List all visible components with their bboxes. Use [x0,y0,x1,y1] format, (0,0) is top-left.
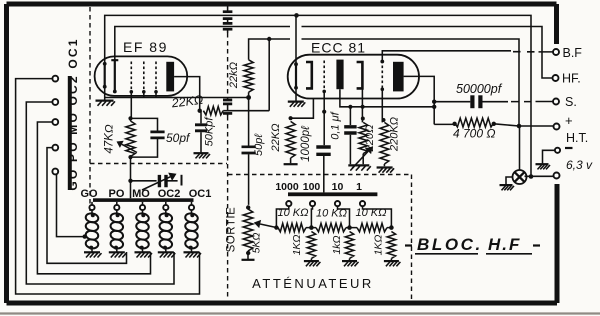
node HT/R2 riser [267,37,271,41]
svg-text:+: + [565,113,573,128]
node coil L1 tap [83,234,87,238]
resistor R9 10K [316,223,346,231]
node HT junction [517,124,522,129]
ECC81 anode 1 [336,60,343,90]
R4 bottom terminal bar [290,158,292,163]
svg-text:47KΩ: 47KΩ [104,124,116,153]
wire R1 chain down to switch bar [130,118,132,198]
svg-text:SORTIE: SORTIE [226,207,238,253]
ground 1K #1 [304,260,319,262]
attenuator tap terminal 1 [286,201,291,206]
resistor R5 220 ohm cathode [361,88,364,164]
node R1 bottom [128,155,132,159]
wiper arrow to P1 [260,224,277,228]
resistor R13K 1K [387,232,395,259]
svg-text:1000: 1000 [275,181,299,193]
EF89 suppressor grid (dashed) [155,62,157,90]
svg-text:10 KΩ: 10 KΩ [278,207,309,219]
svg-text:100: 100 [303,181,321,193]
svg-text:10 KΩ: 10 KΩ [356,207,387,219]
attenuator dashed box right edge [411,175,413,301]
ECC81 control grid 1 (dashed) [323,61,325,90]
attenuator tap terminal 2 [310,201,315,206]
coil L5 [191,202,193,214]
svg-text:50pf: 50pf [166,131,191,145]
svg-text:GO PO MO OC2 OC1: GO PO MO OC2 OC1 [66,37,80,190]
resistor R12K 1K [345,232,353,259]
svg-text:50000pf: 50000pf [456,82,503,96]
capacitor C7 0,1uf [349,107,351,165]
svg-text:220Ω: 220Ω [364,125,376,153]
svg-text:EF 89: EF 89 [123,39,168,55]
dashes to S terminal [511,101,553,103]
resistor R1 47K [126,121,135,157]
wire grid2 to BF terminal [382,51,511,62]
ECC81 grid electrode 2 (bracket) [357,62,363,88]
R5 adjust arrow [352,151,368,168]
coil terminal above L1 [89,205,94,210]
coil terminal above L2 [114,205,119,210]
coil L1 [91,202,93,214]
svg-text:OC1: OC1 [189,188,212,200]
terminal S [553,99,559,105]
coil L2 [116,202,118,214]
svg-text:PO: PO [109,188,125,200]
capacitor C6 1000pf [323,91,325,145]
trimmer capacitor on MO (padder) [131,180,178,182]
resistor R11K 1K [307,232,315,259]
coil terminal above L3 [140,205,145,210]
ground 1K #3 [384,260,399,262]
EF89 grid g2 electrode [111,60,118,91]
band switch bar (vertical) [68,76,72,190]
resistor R4 22K grid leak [291,98,314,118]
svg-text:1KΩ: 1KΩ [373,235,385,256]
wire g2 line from EF89 to HF terminal (top) [115,27,552,79]
wire terminal1 to coil L5 tap [16,79,200,294]
capacitor C8 50000pf [434,101,508,103]
ground under coil L5 [184,251,200,253]
terminal minus [555,148,560,153]
EF89 grid g3 (dashed) [143,62,145,90]
ECC81 grid electrode 1 (bracket) [306,62,312,88]
attenuator tap terminal 3 [335,201,340,206]
wire terminal5 to coil L1 tap [57,174,85,236]
wire minus to chassis [543,150,555,163]
node R3 bottom [246,95,251,100]
variable capacitor gang section 2 [223,19,233,24]
svg-text:S.: S. [565,95,577,109]
attenuator dashed box top edge [228,174,412,176]
antenna input terminal 4 [52,145,58,151]
wire HT rail [249,39,519,126]
svg-text:MO: MO [132,188,150,200]
svg-text:220KΩ: 220KΩ [389,117,401,152]
svg-text:H.F: H.F [488,235,521,254]
node anode / 50Kpf [198,109,202,113]
wave-band switch bar (horizontal) [93,198,194,202]
resistor R3 22k screen [244,60,253,92]
resistor R7 4700 ohm [434,123,454,125]
wire ECC81 cathode to heater line [295,15,297,64]
tube EF89 envelope [95,56,188,96]
wire terminal2 to coil L4 tap [26,102,174,284]
variable capacitor gang section 3 [223,28,233,31]
wire anode2 lead [404,76,435,124]
dashed box bottom edge (EF89 section) [90,163,227,165]
variable capacitor gang section (top) [227,7,229,11]
svg-text:H.T.: H.T. [566,131,588,145]
EF89 anode plate [166,62,174,92]
ground EF89 cathode [96,99,114,101]
coil terminal above L4 [163,205,168,210]
wire anode1 to output node [340,89,434,107]
trimmer arrow [142,177,170,190]
ground shared C7/R5 [348,164,369,166]
svg-text:OC2: OC2 [158,188,181,200]
ECC81 control grid 2 (dashed) [381,61,383,90]
ground R6 [377,166,393,168]
svg-text:1KΩ: 1KΩ [291,235,303,256]
capacitor C2 50Kpf [200,111,202,153]
svg-text:0,1 μf: 0,1 μf [330,111,342,139]
node R1 top [128,116,132,120]
dashes to BF terminal [513,51,553,53]
svg-text:HF.: HF. [562,72,581,86]
svg-text:6,3 v: 6,3 v [566,158,593,172]
svg-text:50Kpf: 50Kpf [204,117,216,147]
chain connector wires [276,227,391,229]
wire EF89 anode lead [174,77,200,111]
svg-text:BLOC.: BLOC. [417,235,483,254]
svg-text:10 KΩ: 10 KΩ [316,208,347,220]
potentiometer P1 5K [246,205,250,209]
svg-text:10: 10 [332,181,344,193]
svg-text:ECC 81: ECC 81 [311,40,366,56]
resistor R8 10K [278,223,306,231]
wire tap4 drop [363,206,392,227]
wire terminal4 to coil L2 tap [47,148,127,264]
coil L4 [165,202,167,214]
wire EF89 cathode lead to ground [104,87,106,101]
wire heater line from EF89 to 6,3v (top) [105,15,531,176]
antenna input terminal 1 [52,76,58,82]
pilot lamp [513,170,527,184]
svg-text:50pℓ: 50pℓ [253,134,265,156]
EF89 control grid (dashed) [130,62,132,90]
terminal B.F [553,49,559,55]
node at dashed crossing [128,179,132,183]
wire tap1 drop [276,206,288,227]
svg-text:1kΩ: 1kΩ [331,235,343,254]
ground under coil L1 [84,251,100,253]
terminal 6,3v [554,173,560,179]
coil L3 [142,202,144,214]
wire lamp left to chassis [506,177,513,184]
ground under coil L2 [109,251,125,253]
wire to 6,3v [525,175,554,177]
capacitor C1 50pf [131,118,158,157]
ground under coil L3 [135,251,151,253]
antenna input terminal 5 [52,169,58,175]
wire R3 to cathode bus [248,92,250,97]
capacitor C5 50pf (coupling to attenuator) [248,98,250,205]
ground 1K #2 [342,260,357,262]
wire R2 to HT riser [223,39,269,111]
svg-text:B.F: B.F [563,46,583,60]
wire tap2 drop [311,206,312,227]
svg-text:1: 1 [356,181,362,193]
wire ECC81 cathode1 to ground [295,88,297,102]
dashed gang line / attenuator box left edge [227,33,229,96]
svg-text:22KΩ: 22KΩ [270,124,282,153]
attenuator input bus bar [288,192,377,196]
svg-text:22kΩ: 22kΩ [228,62,240,89]
dashed screen-section box left edge [89,7,91,211]
47K adjust arrow [122,144,137,152]
wire HT vertical to lamp [519,126,521,170]
ground C2 [194,152,209,154]
resistor R6 220K [382,89,384,166]
node lamp right [529,174,534,179]
ECC81 anode 2 [393,62,404,92]
resistor R10 10K [357,223,387,231]
EF89 cathode [104,64,106,87]
antenna input terminal 3 [52,119,58,125]
label BLOC H.F [405,244,412,246]
coil terminal above L5 [189,205,194,210]
terminal +HT [554,124,560,130]
ground ECC81 cathode [288,100,304,102]
svg-text:1000pℓ: 1000pℓ [300,126,312,162]
wire tap3 drop [338,206,350,227]
svg-text:5KΩ: 5KΩ [251,233,263,254]
variable capacitor gang lower section [227,98,229,99]
tube ECC81 envelope [288,55,419,99]
attenuator tap terminal 4 [360,201,365,206]
wire terminal3 to coil L3 tap [37,122,150,274]
ECC81 cathode 1 [295,64,297,88]
antenna input terminal 2 [52,99,58,105]
svg-text:4 700 Ω: 4 700 Ω [453,127,496,141]
terminal HF [553,75,559,81]
resistor R2 22K (anode) [203,107,223,115]
svg-text:ATTÉNUATEUR: ATTÉNUATEUR [252,276,374,291]
wire cathode bus under EF89 [105,97,249,99]
svg-text:GO: GO [80,188,98,200]
wire EF89 grid leads down [131,92,156,120]
ground under coil L4 [158,251,174,253]
